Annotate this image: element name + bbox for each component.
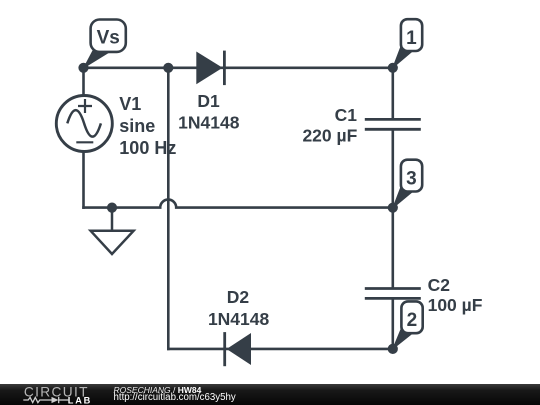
label D2 1N4148: [208, 287, 270, 329]
junction node 2: [388, 344, 398, 354]
voltage source V1: [56, 96, 112, 152]
junction at Vs node: [78, 63, 88, 73]
svg-text:1: 1: [406, 28, 417, 49]
capacitor C2: [365, 289, 421, 299]
svg-text:3: 3: [406, 168, 417, 189]
wire node 3 to C2: [391, 208, 394, 289]
capacitor C1: [365, 119, 421, 129]
junction node 3: [388, 203, 398, 213]
label V1 sine 100 Hz: [119, 94, 176, 158]
CircuitLab logo: [0, 384, 100, 405]
svg-text:C2: C2: [428, 275, 451, 295]
svg-text:V1: V1: [119, 94, 141, 114]
diode D2: [225, 332, 251, 366]
svg-text:220 µF: 220 µF: [302, 125, 357, 145]
node label 2: [393, 301, 423, 349]
label C2 100 uF: [428, 275, 483, 315]
svg-text:sine: sine: [119, 116, 155, 136]
node label 1: [393, 19, 422, 68]
node label 3: [393, 160, 422, 208]
svg-text:100 µF: 100 µF: [428, 295, 483, 315]
svg-text:LAB: LAB: [68, 395, 92, 405]
wire C2 to node 2: [391, 298, 394, 349]
wire left rail from Vs node down to V1 top: [82, 68, 85, 96]
footer title line: [114, 385, 202, 395]
junction top of second vertical: [163, 63, 173, 73]
wire right rail node1 to C1: [391, 68, 394, 120]
svg-text:1N4148: 1N4148: [178, 112, 240, 132]
wire second vertical from top rail down to bottom rail: [167, 68, 170, 350]
svg-text:D1: D1: [197, 91, 220, 111]
wire from V1 bottom to ground rail corner: [82, 152, 85, 209]
diode D1: [196, 51, 224, 86]
junction ground tap: [107, 203, 117, 213]
svg-text:100 Hz: 100 Hz: [119, 138, 176, 158]
wire C1 to node 3: [391, 129, 394, 207]
svg-text:D2: D2: [227, 287, 250, 307]
svg-text:Vs: Vs: [97, 28, 120, 49]
svg-text:2: 2: [407, 310, 418, 331]
footer url line: [114, 392, 236, 403]
node label Vs: [84, 20, 126, 68]
label D1 1N4148: [178, 91, 240, 133]
wire top rail from Vs node to node 1: [84, 67, 393, 70]
svg-text:C1: C1: [335, 105, 358, 125]
junction node 1: [388, 63, 398, 73]
wire middle ground rail with hop over vertical wire: [82, 200, 393, 208]
svg-text:1N4148: 1N4148: [208, 309, 270, 329]
ground: [91, 208, 134, 254]
label C1 220 uF: [302, 105, 357, 145]
wire bottom rail from vertical to node 2: [167, 348, 393, 351]
